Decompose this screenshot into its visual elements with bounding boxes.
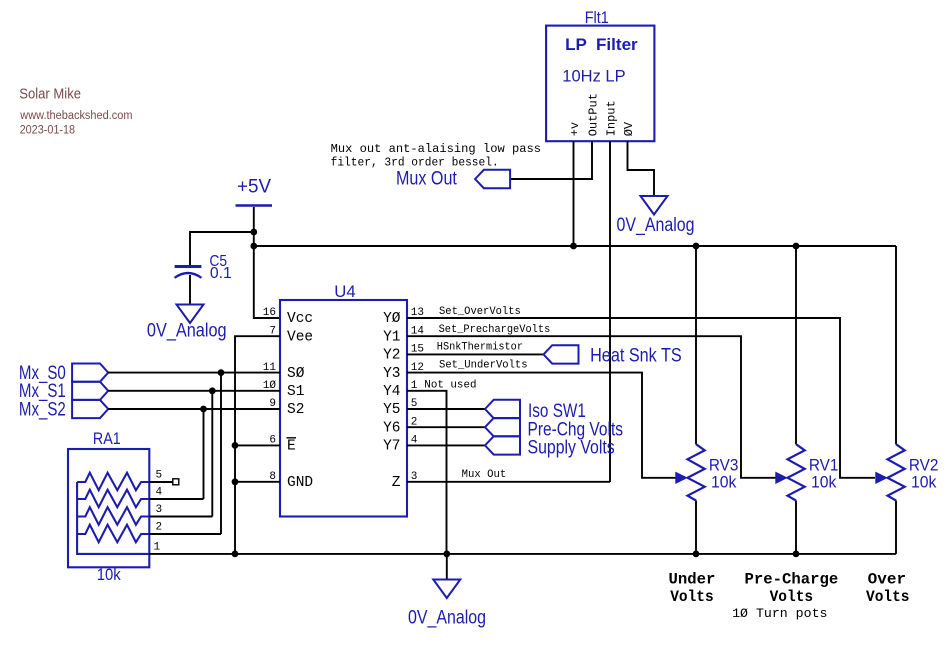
svg-text:Y3: Y3 [383, 366, 400, 382]
junction GND [232, 478, 239, 485]
junction Y4 / ground [443, 551, 450, 558]
wire RV1 top lead [795, 246, 797, 444]
wire E to bus [235, 444, 280, 446]
svg-text:2: 2 [156, 522, 163, 534]
wire bottom 0V rail [149, 553, 896, 555]
svg-text:10k: 10k [911, 473, 937, 492]
tag Mx_S2 [72, 400, 108, 418]
tag Iso SW1 [485, 400, 520, 418]
svg-text:S2: S2 [287, 402, 304, 418]
potentiometer RV2 zigzag [888, 444, 905, 500]
svg-text:Set_OverVolts: Set_OverVolts [439, 306, 521, 318]
wire Mx_S0 to S0 [108, 372, 280, 374]
tag Mx_S1 [72, 382, 108, 400]
svg-text:LP Filter: LP Filter [565, 35, 638, 54]
wire Y1 Set_PrechargeVolts to RV1 wiper [407, 336, 777, 478]
svg-text:Mux Out: Mux Out [396, 169, 457, 190]
RV3 wiper arrow [676, 472, 687, 483]
junction RV1 top [793, 243, 800, 250]
svg-text:Volts: Volts [770, 588, 814, 606]
svg-text:Under: Under [669, 571, 716, 589]
svg-text:Set_UnderVolts: Set_UnderVolts [439, 360, 528, 372]
svg-text:Mux out ant-alaising low pass: Mux out ant-alaising low pass [331, 142, 541, 156]
RA1 resistor row pin2 [77, 525, 149, 543]
svg-text:SØ: SØ [287, 366, 305, 382]
svg-text:Volts: Volts [866, 588, 910, 606]
junction RA1 pin1 / bus [232, 551, 239, 558]
svg-text:RA1: RA1 [93, 429, 121, 448]
svg-text:1: 1 [154, 541, 161, 553]
svg-text:10k: 10k [811, 473, 837, 492]
no-connect square pin5 [173, 479, 179, 485]
wire RV2 top lead [895, 246, 897, 444]
tag Mux Out [475, 170, 510, 188]
power +5V bar [236, 204, 273, 207]
op-amp/mux U4 box [280, 300, 407, 517]
svg-text:YØ: YØ [383, 311, 401, 327]
svg-text:Input: Input [604, 100, 618, 136]
ground 0V_Analog under C5 [177, 305, 204, 324]
wire RV3 top lead [695, 246, 697, 444]
svg-text:RV1: RV1 [809, 455, 839, 474]
RA1 resistor row pin3 [77, 507, 149, 525]
svg-text:3: 3 [156, 504, 163, 516]
svg-text:OutPut: OutPut [586, 93, 600, 136]
wire Mx_S1 to S1 [108, 390, 280, 392]
wire RA1 pin2 to S0 [220, 373, 222, 534]
wire RA1 pin4 to S2 [203, 409, 205, 499]
junction Flt1 +v [570, 243, 577, 250]
wire Z Mux Out [407, 481, 610, 483]
tag Mx_S0 [72, 364, 108, 382]
wire +5V stem to Vcc [254, 207, 280, 318]
svg-text:Y5: Y5 [383, 402, 400, 418]
RA1 resistor row pin4 [77, 490, 149, 508]
svg-text:+v: +v [568, 122, 582, 136]
RA1 internal bus [77, 482, 149, 554]
svg-text:2023-01-18: 2023-01-18 [20, 124, 76, 136]
junction C5 branch [250, 229, 257, 236]
svg-text:Set_PrechargeVolts: Set_PrechargeVolts [439, 324, 551, 336]
junction S0 [218, 369, 225, 376]
tag Pre-Chg Volts [485, 418, 520, 436]
svg-text:0V_Analog: 0V_Analog [147, 320, 227, 341]
svg-text:S1: S1 [287, 384, 304, 400]
junction RV3 bottom [693, 551, 700, 558]
svg-text:Vcc: Vcc [287, 311, 313, 327]
svg-text:0.1: 0.1 [210, 265, 232, 282]
svg-text:5: 5 [156, 470, 163, 482]
svg-text:4: 4 [156, 487, 163, 499]
svg-text:Mx_S2: Mx_S2 [19, 399, 66, 420]
wire RV2 bottom lead [895, 501, 897, 554]
svg-text:Y2: Y2 [383, 348, 400, 364]
wire RV1 bottom lead [795, 501, 797, 554]
wire RA1 pin3 to S1 [211, 391, 213, 517]
wire Y5 to Iso SW1 tag [407, 408, 485, 410]
wire Flt1 +v to +5V rail [573, 141, 575, 246]
wire C5 to ground [189, 275, 191, 305]
wire Flt1 Input down to Z [609, 141, 611, 482]
svg-text:Mux Out: Mux Out [462, 469, 507, 481]
wire Y2 HSnkThermistor to tag [407, 353, 544, 355]
svg-text:0V_Analog: 0V_Analog [617, 215, 695, 236]
svg-text:10k: 10k [97, 565, 121, 584]
wire RA1 pin4 [149, 498, 203, 500]
wire Flt1 OutPut to Mux Out tag [510, 141, 592, 179]
wire +5V rail [254, 245, 896, 247]
svg-text:10k: 10k [711, 473, 737, 492]
junction RV1 bottom [793, 551, 800, 558]
RA1 resistor row pin5 [77, 473, 149, 491]
svg-text:filter, 3rd order bessel.: filter, 3rd order bessel. [331, 155, 499, 169]
svg-text:Supply Volts: Supply Volts [528, 438, 615, 459]
svg-text:16: 16 [263, 307, 276, 319]
junction rail start [250, 243, 257, 250]
RV1 wiper arrow [776, 472, 787, 483]
RV2 wiper arrow [876, 472, 887, 483]
potentiometer RV1 zigzag [788, 444, 805, 500]
tag Heat Snk TS [544, 345, 579, 363]
junction RV3 top [693, 243, 700, 250]
svg-text:Y1: Y1 [383, 329, 400, 345]
wire Y0 Set_OverVolts to RV2 wiper [407, 318, 875, 478]
capacitor C5 [175, 265, 202, 268]
wire to C5 [190, 232, 254, 265]
tag Supply Volts [485, 436, 520, 454]
svg-text:Over: Over [868, 571, 907, 589]
svg-text:RV2: RV2 [909, 455, 939, 474]
junction S2 [200, 406, 207, 413]
svg-text:+5V: +5V [237, 176, 271, 197]
wire Y6 to Pre-Chg Volts tag [407, 426, 485, 428]
junction E [232, 442, 239, 449]
ground 0V_Analog bottom [433, 580, 460, 599]
svg-text:10Hz LP: 10Hz LP [562, 66, 625, 85]
svg-text:U4: U4 [334, 282, 355, 301]
svg-text:Y7: Y7 [383, 439, 400, 455]
wire GND to bus [235, 481, 280, 483]
potentiometer RV3 zigzag [688, 444, 705, 500]
wire Vee bus down [235, 336, 280, 554]
wire Y7 to Supply Volts tag [407, 444, 485, 446]
svg-text:Y6: Y6 [383, 420, 400, 436]
wire Mx_S2 to S2 [108, 408, 280, 410]
wire RA1 pin2 [149, 533, 221, 535]
wire Y4 not used to 0V rail [407, 391, 447, 554]
svg-text:0V_Analog: 0V_Analog [408, 608, 486, 629]
resistor array RA1 box [68, 449, 149, 567]
svg-text:GND: GND [287, 475, 313, 491]
ground 0V_Analog under Flt1 [641, 196, 668, 215]
wire RA1 pin3 [149, 516, 212, 518]
svg-text:E: E [287, 439, 296, 455]
svg-text:Volts: Volts [670, 588, 714, 606]
svg-text:Solar Mike: Solar Mike [19, 87, 81, 103]
svg-text:Z: Z [392, 475, 401, 491]
wire to bottom ground [446, 554, 448, 580]
svg-text:ØV: ØV [622, 121, 636, 136]
wire Flt1 0V to ground [628, 141, 655, 196]
svg-text:www.thebackshed.com: www.thebackshed.com [19, 110, 132, 122]
svg-text:HSnkThermistor: HSnkThermistor [437, 341, 523, 353]
junction S1 [209, 387, 216, 394]
wire RV3 bottom lead [695, 501, 697, 554]
svg-text:Vee: Vee [287, 329, 313, 345]
svg-text:Pre-Charge: Pre-Charge [745, 571, 839, 589]
svg-text:RV3: RV3 [709, 455, 739, 474]
filter Flt1 box [546, 26, 654, 142]
svg-text:1Ø Turn pots: 1Ø Turn pots [732, 606, 827, 621]
svg-text:Flt1: Flt1 [585, 8, 609, 27]
wire RA1 pin5 stub [149, 481, 172, 483]
wire Y3 Set_UnderVolts to RV3 wiper [407, 373, 676, 478]
svg-text:Y4: Y4 [383, 384, 400, 400]
svg-text:Heat Snk TS: Heat Snk TS [590, 346, 682, 367]
